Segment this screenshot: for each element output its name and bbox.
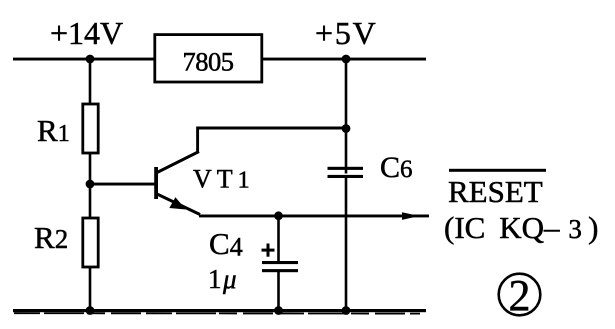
- regulator U1 7805: [155, 35, 262, 82]
- svg-text:RESET: RESET: [448, 174, 543, 209]
- transistor VT1: [154, 152, 254, 215]
- capacitor C6: [328, 151, 413, 184]
- junction: C6 / ground rail: [342, 306, 351, 315]
- wire: R2 bottom to ground rail: [89, 267, 92, 310]
- wire: base node down to R2: [89, 184, 92, 218]
- figure number 2 badge: [499, 271, 541, 320]
- wire: VT1 collector up and right to +5V branch: [198, 128, 346, 152]
- wire: emitter rail down to C4 top plate: [277, 216, 280, 262]
- wire: ground rail: [13, 309, 426, 312]
- svg-text:(IC KQ– 3 ): (IC KQ– 3 ): [444, 210, 598, 245]
- wire: VT1 emitter rail to RESET output: [199, 215, 429, 218]
- svg-text:R2: R2: [34, 220, 68, 255]
- junction: C4 / ground rail: [274, 306, 283, 315]
- resistor R1: [37, 104, 98, 153]
- capacitor C4 polarity +: [262, 244, 275, 257]
- svg-text:2: 2: [509, 271, 531, 320]
- svg-text:C6: C6: [380, 151, 413, 184]
- wire: 7805 output to +5V rail (right segment): [263, 58, 426, 61]
- svg-text:+14V: +14V: [50, 15, 123, 51]
- svg-text:VT1: VT1: [193, 165, 255, 194]
- wire: +14V input rail (left segment to 7805 input): [13, 58, 155, 61]
- junction: emitter rail / C4 branch: [274, 211, 283, 220]
- junction: collector / C6 branch: [342, 124, 351, 133]
- wire: R1 bottom to base node: [89, 153, 92, 184]
- wire: C6 bottom plate down to ground rail: [345, 178, 348, 312]
- node RESET label with overline: [448, 169, 546, 209]
- arrow: RESET output direction: [402, 212, 419, 220]
- wire: base node to transistor base: [90, 183, 155, 186]
- svg-text:1μ: 1μ: [208, 264, 238, 294]
- wire: ground rail scan shadow: [14, 312, 420, 314]
- wire: C4 bottom plate down to ground rail: [277, 272, 280, 312]
- resistor R2: [34, 218, 98, 267]
- svg-text:+5V: +5V: [315, 15, 378, 51]
- capacitor C4: [209, 226, 298, 272]
- svg-text:7805: 7805: [183, 47, 234, 77]
- junction: R1/R2 divider, base node: [86, 180, 95, 189]
- junction: +5V rail / C6 branch: [342, 55, 351, 64]
- junction: +14V rail / R1 top: [86, 55, 95, 64]
- junction: R2 / ground rail: [86, 306, 95, 315]
- wire: +5V rail down through collector node to C6 top plate: [345, 59, 348, 174]
- wire: +14V rail down to R1: [89, 59, 92, 105]
